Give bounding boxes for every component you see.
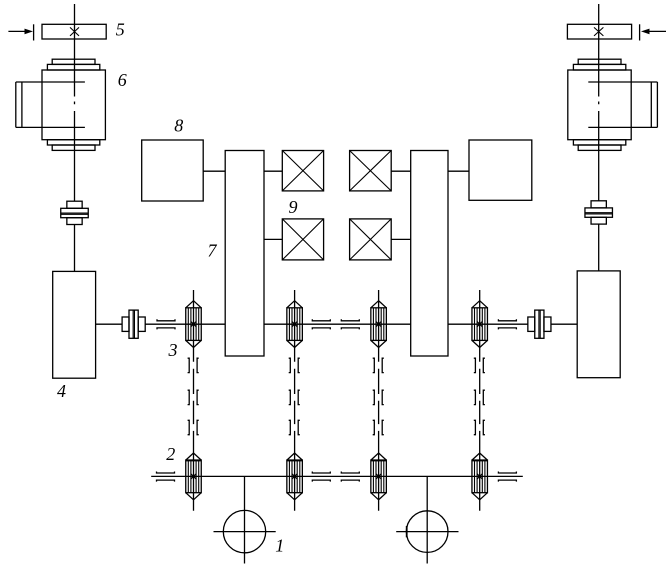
spindle head col4 <box>472 301 488 348</box>
coupling on left drive shaft <box>61 201 89 224</box>
motor-coupling box 9 (left upper) <box>282 151 323 191</box>
svg-text:5: 5 <box>116 20 125 40</box>
wire: stand 7 to box 9 upper (left) <box>264 170 282 172</box>
spindle head 2 col1 <box>186 453 202 500</box>
telescopic joint col2 c <box>289 420 300 434</box>
wire: box upper to stand (right) <box>391 170 411 172</box>
spindle head 2 col4 <box>472 453 488 500</box>
wire: stand to gearbox (right) <box>448 170 469 172</box>
spindle column 4 vertical segments <box>479 290 481 511</box>
spindle column 2 vertical segments <box>294 290 296 511</box>
svg-text:1: 1 <box>275 536 284 556</box>
svg-text:7: 7 <box>208 240 218 260</box>
coupling on right drive shaft <box>585 201 613 224</box>
telescopic joint col4 a <box>474 358 485 372</box>
svg-text:3: 3 <box>168 340 178 360</box>
wire: box lower to stand (right) <box>391 238 411 240</box>
work roll (right) <box>396 476 458 563</box>
motor-coupling box (left lower) <box>282 219 323 260</box>
sliding joint lower line far-left <box>157 472 175 482</box>
reducer 4 (left) <box>53 271 96 378</box>
wire: left drive shaft (dash-dot centerline x=74.5) <box>74 4 76 271</box>
telescopic joint col4 b <box>474 390 485 404</box>
telescopic joint col3 b <box>373 390 384 404</box>
sliding joint lower line mid-right <box>341 472 359 482</box>
coupling on upper line (right) <box>528 310 551 338</box>
sliding joint upper line far-right <box>498 319 516 329</box>
motor-coupling box (right upper) <box>350 151 392 191</box>
sliding joint upper line far-left <box>157 319 175 329</box>
gearbox 8 (left) <box>142 140 204 201</box>
reducer (right) <box>577 271 620 378</box>
brake disc 5 (left) <box>42 24 106 39</box>
coupling on upper line (left) <box>122 310 145 338</box>
spindle head 2 col3 <box>371 453 387 500</box>
telescopic joint col2 b <box>289 390 300 404</box>
pinion stand (right) <box>411 151 448 357</box>
telescopic joint col3 a <box>373 358 384 372</box>
spindle column 1 vertical segments <box>193 290 195 511</box>
telescopic joint col1 a <box>188 358 199 372</box>
telescopic joint col4 c <box>474 420 485 434</box>
brake disc (right) <box>567 24 631 39</box>
svg-text:8: 8 <box>174 115 183 135</box>
gearbox (right) <box>469 140 532 200</box>
sliding joint upper line mid-left <box>312 319 330 329</box>
spindle head 2 col2 <box>287 453 303 500</box>
telescopic joint col1 b <box>188 390 199 404</box>
svg-text:4: 4 <box>57 381 66 401</box>
wire: upper spindle line y=324.2 <box>96 323 578 325</box>
wire: gearbox 8 to stand 7 (left) <box>203 170 225 172</box>
motor 6 (left) <box>16 59 106 150</box>
motor (right) <box>568 59 658 150</box>
work roll 1 (left) <box>214 476 276 563</box>
pinion stand 7 (left) <box>225 151 264 357</box>
telescopic joint col1 c <box>188 420 199 434</box>
svg-text:9: 9 <box>289 197 298 217</box>
telescopic joint col2 a <box>289 358 300 372</box>
svg-text:6: 6 <box>118 70 127 90</box>
wire: lower roll line y=476.4 <box>151 475 523 477</box>
wire: stand 7 to box 9 lower (left) <box>264 238 282 240</box>
telescopic joint col3 c <box>373 420 384 434</box>
spindle head col3 <box>371 301 387 348</box>
spindle head col2 <box>287 301 303 348</box>
spindle head 3 col1 <box>186 301 202 348</box>
sliding joint upper line mid-right <box>341 319 359 329</box>
sliding joint lower line far-right <box>498 472 516 482</box>
motor-coupling box (right lower) <box>350 219 392 260</box>
arrow into brake (right) <box>640 24 666 40</box>
spindle column 3 vertical segments <box>378 290 380 511</box>
sliding joint lower line mid-left <box>312 472 330 482</box>
wire: right drive shaft (dash-dot centerline x=598.7) <box>598 4 600 271</box>
arrow into brake 5 (left) <box>8 24 33 40</box>
svg-text:2: 2 <box>166 444 175 464</box>
